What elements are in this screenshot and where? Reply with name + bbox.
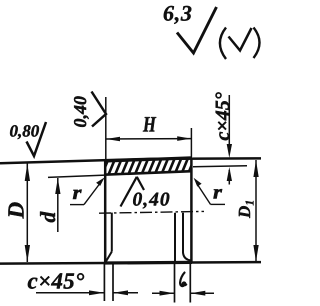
dimension c arrow left-pointing bbox=[113, 290, 128, 295]
dimension c line (top right) bbox=[228, 95, 230, 146]
dimension l line left tail bbox=[152, 292, 175, 294]
extension line bottom (chamfer) bbox=[112, 264, 114, 301]
roughness mark 0,40 short arm bbox=[137, 177, 144, 190]
leader r left arrow bbox=[96, 177, 105, 186]
label D (rotated) bbox=[8, 202, 23, 218]
dimension D1 arrow down bbox=[253, 245, 258, 262]
bore chamfer vertical line (left inner) bbox=[111, 213, 113, 252]
label 0,40 (rotated, left face) bbox=[74, 96, 89, 127]
roughness mark in parentheses bbox=[229, 28, 252, 51]
extension line chamfer bottom (right) bbox=[193, 166, 247, 167]
band bottom edge (machined surface) bbox=[104, 171, 192, 175]
dimension D1 arrow up bbox=[253, 160, 258, 177]
label d (rotated) bbox=[40, 211, 55, 222]
dimension c tail right bbox=[113, 292, 138, 294]
part right edge bbox=[190, 158, 193, 263]
extension line for d (left of band bottom) bbox=[48, 175, 105, 177]
dimension d line (single arrow, cut past axis) bbox=[57, 178, 59, 232]
leader r left line bbox=[84, 182, 101, 205]
label 0,40 (in body) bbox=[133, 193, 169, 209]
leader r left shelf bbox=[70, 204, 84, 206]
roughness mark 6,3 (general note) bbox=[177, 7, 217, 53]
roughness mark 0,40 (under machined surface) long arm bbox=[121, 177, 137, 207]
extension line bottom (groove) bbox=[174, 264, 176, 303]
dimension l arrow left-pointing bbox=[190, 291, 205, 296]
label c×45° (bottom) bbox=[28, 273, 84, 289]
dimension H extension line right bbox=[190, 128, 192, 157]
wire top surface extension line (full width) bbox=[0, 158, 261, 163]
leader r right line bbox=[197, 183, 211, 204]
wire bottom surface extension line (full width) bbox=[0, 262, 261, 264]
dimension H arrow left bbox=[106, 137, 120, 142]
parenthesis left bbox=[220, 28, 226, 60]
part bottom edge (thick) bbox=[104, 261, 192, 265]
dimension c line (bottom) bbox=[36, 292, 104, 294]
hatched allowance band fill bbox=[101, 154, 203, 178]
dimension c arrow tail bbox=[228, 170, 230, 185]
dimension D arrow down bbox=[25, 245, 30, 262]
label l (script ell) bbox=[180, 273, 186, 287]
centerline (dash-dot axis) bbox=[99, 211, 204, 213]
bore chamfer diagonal (bottom left) bbox=[106, 252, 112, 262]
parenthesis right bbox=[254, 28, 260, 59]
dimension H line bbox=[106, 138, 192, 140]
dimension D1 line bbox=[255, 160, 257, 262]
roughness mark 0,80 (on top surface) bbox=[27, 122, 47, 156]
extension line bottom (part right edge) bbox=[189, 264, 191, 303]
label 0,80 bbox=[10, 125, 39, 139]
dimension c arrow right-pointing bbox=[89, 290, 104, 295]
dimension c arrow up (to chamfer line) bbox=[227, 167, 232, 181]
roughness mark 0,40 rotated (tip on H extension line) bbox=[92, 92, 107, 127]
leader r right shelf bbox=[211, 203, 226, 205]
dimension D line bbox=[26, 164, 28, 263]
label 6,3 bbox=[164, 6, 192, 24]
dimension H extension line left bbox=[105, 97, 107, 159]
dimension d arrow up bbox=[55, 178, 60, 194]
dimension l line right tail bbox=[190, 292, 214, 294]
leader r right arrow bbox=[194, 178, 202, 187]
label D1 (rotated) bbox=[239, 201, 254, 218]
label r (right) bbox=[213, 189, 222, 198]
dimension H arrow right bbox=[177, 136, 191, 141]
dimension c arrow down (to top surface) bbox=[227, 144, 232, 158]
groove wall line (right inner, l extent) bbox=[174, 213, 176, 263]
label r (left) bbox=[73, 190, 82, 199]
label c×45° (top right, rotated) bbox=[215, 92, 228, 140]
band top edge (thick part outline) bbox=[104, 158, 192, 161]
label H bbox=[143, 117, 156, 131]
part left edge bbox=[104, 160, 107, 263]
extension line bottom (part left edge) bbox=[103, 264, 105, 301]
dimension D arrow up bbox=[25, 164, 30, 182]
groove fillet vertical line (right inner) bbox=[183, 213, 191, 261]
dimension l arrow right-pointing bbox=[160, 291, 175, 296]
